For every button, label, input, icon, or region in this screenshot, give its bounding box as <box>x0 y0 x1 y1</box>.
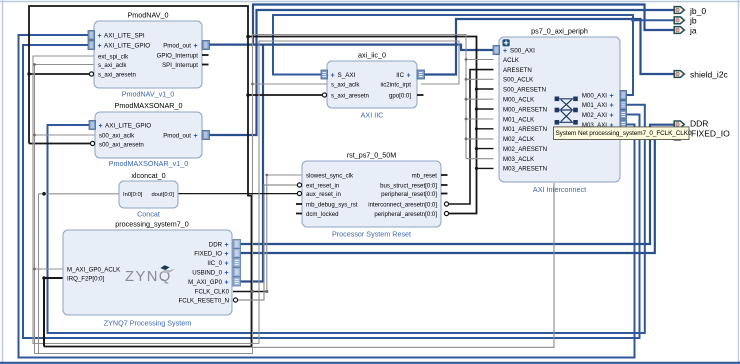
svg-text:FCLK_CLK0: FCLK_CLK0 <box>195 288 230 295</box>
svg-text:shield_i2c: shield_i2c <box>690 69 729 79</box>
port shield_i2c <box>674 69 728 79</box>
port jb <box>674 16 697 26</box>
svg-text:AXI IIC: AXI IIC <box>361 111 384 120</box>
svg-text:processing_system7_0: processing_system7_0 <box>115 220 189 229</box>
terminal axi_iic s_axi_aresetn <box>322 93 326 97</box>
svg-text:USBIND_0: USBIND_0 <box>192 269 222 276</box>
svg-text:dout[0:0]: dout[0:0] <box>151 192 174 198</box>
svg-text:M02_ACLK: M02_ACLK <box>503 136 534 143</box>
terminal s_axi_aresetn PmodNAV <box>89 72 93 76</box>
svg-text:iic2intc_irpt: iic2intc_irpt <box>381 81 412 88</box>
svg-text:+: + <box>331 72 335 79</box>
block rst_ps7_0_50M <box>296 151 448 239</box>
svg-text:ps7_0_axi_periph: ps7_0_axi_periph <box>531 27 588 36</box>
wire clock return under interconnect <box>250 183 554 347</box>
svg-text:ext_reset_in: ext_reset_in <box>306 182 339 189</box>
crossbar icon <box>555 97 578 125</box>
svg-text:ja: ja <box>689 25 697 35</box>
svg-text:FIXED_IO: FIXED_IO <box>194 250 222 257</box>
svg-text:Pmod_out: Pmod_out <box>163 132 191 139</box>
tooltip System Net <box>554 127 692 140</box>
stub mb_reset <box>441 174 448 176</box>
svg-text:ARESETN: ARESETN <box>503 67 532 74</box>
svg-text:M01_ACLK: M01_ACLK <box>503 116 534 123</box>
svg-text:M02_AXI: M02_AXI <box>582 112 607 119</box>
svg-text:FIXED_IO: FIXED_IO <box>691 129 730 139</box>
svg-text:dcm_locked: dcm_locked <box>306 211 339 218</box>
stub gpo <box>417 94 424 96</box>
wire clock branch axi_iic aclk <box>253 83 328 85</box>
wire peripheral_aresetn net <box>29 6 477 214</box>
wire aresetn vertical to bottom <box>44 37 252 347</box>
svg-text:PmodNAV_0: PmodNAV_0 <box>127 11 168 20</box>
svg-text:Concat: Concat <box>137 210 160 219</box>
wire clock branch slowest_sync_clk <box>267 175 302 292</box>
stub mb_debug_sys_rst <box>296 203 302 205</box>
wire clock branch s_axi_aclk <box>35 64 95 66</box>
svg-text:ACLK: ACLK <box>503 57 519 64</box>
svg-text:M00_ACLK: M00_ACLK <box>503 97 534 104</box>
svg-text:+: + <box>194 133 198 140</box>
svg-text:jb_0: jb_0 <box>689 6 706 16</box>
connector Pmod_out PmodNAV <box>202 41 210 50</box>
svg-text:+: + <box>98 43 102 50</box>
terminal peripheral_aresetn <box>444 211 448 215</box>
svg-text:+: + <box>194 43 198 50</box>
node M00 riser joint <box>631 19 635 23</box>
wire bridge on y44.6 <box>253 43 263 45</box>
block processing_system7_0 <box>63 220 232 328</box>
svg-text:+: + <box>610 103 614 110</box>
svg-text:IIC_0: IIC_0 <box>207 260 222 267</box>
svg-text:s_axi_aclk: s_axi_aclk <box>331 81 360 88</box>
block ps7_0_axi_periph <box>499 27 620 195</box>
stub SPI_Interrupt <box>202 64 209 66</box>
connector AXI_LITE_GPIO MAXSONAR <box>89 121 96 130</box>
port FIXED_IO <box>674 129 730 140</box>
stub bus_struct_reset <box>441 184 448 186</box>
svg-text:M01_AXI: M01_AXI <box>582 102 607 109</box>
wire ext_spi_clk loop <box>33 56 259 344</box>
wire PmodMAXSONAR Pmod_out to jb_0 <box>209 10 674 135</box>
svg-text:+: + <box>225 242 229 249</box>
svg-text:+: + <box>225 251 229 258</box>
svg-text:+: + <box>610 112 614 119</box>
svg-text:bus_struct_reset[0:0]: bus_struct_reset[0:0] <box>380 182 437 189</box>
wire PmodNAV Pmod_out to ja <box>209 5 674 45</box>
svg-text:SPI_Interrupt: SPI_Interrupt <box>162 62 198 69</box>
connector M03_AXI <box>620 120 627 129</box>
svg-text:S00_AXI: S00_AXI <box>510 47 535 54</box>
wire FCLK_RESET0_N to ext_reset_in <box>236 185 300 300</box>
terminal interconnect_aresetn <box>444 202 448 206</box>
wire clock branch s00_axi_aclk <box>35 134 96 136</box>
terminal FCLK_RESET0_N <box>233 298 237 302</box>
svg-text:s_axi_aresetn: s_axi_aresetn <box>98 71 136 78</box>
svg-text:GPIO_Interrupt: GPIO_Interrupt <box>157 52 199 59</box>
svg-text:S00_ARESETN: S00_ARESETN <box>503 86 546 93</box>
wire IRQ_F2P In0 net <box>44 278 63 347</box>
svg-text:PmodMAXSONAR_v1_0: PmodMAXSONAR_v1_0 <box>109 159 189 168</box>
svg-text:M03_ARESETN: M03_ARESETN <box>503 166 547 173</box>
svg-text:peripheral_aresetn[0:0]: peripheral_aresetn[0:0] <box>374 211 437 218</box>
wire M01_AXI to PmodMAXSONAR AXI_LITE_GPIO <box>48 105 645 333</box>
svg-text:slowest_sync_clk: slowest_sync_clk <box>306 172 354 179</box>
wire aresetn branch to s_axi_aresetn <box>29 73 92 75</box>
svg-text:ext_spi_clk: ext_spi_clk <box>98 53 129 60</box>
svg-text:M03_ACLK: M03_ACLK <box>503 156 534 163</box>
connector Pmod_out MAXSONAR <box>202 131 210 140</box>
wire ZYNQ FIXED_IO to FIXED_IO port <box>240 137 674 254</box>
svg-text:mb_debug_sys_rst: mb_debug_sys_rst <box>306 201 358 208</box>
svg-text:DDR: DDR <box>690 118 708 128</box>
svg-text:s00_axi_aclk: s00_axi_aclk <box>99 132 135 139</box>
wire M00_AXI riser <box>627 20 634 95</box>
svg-text:M01_ARESETN: M01_ARESETN <box>503 126 547 133</box>
svg-text:PmodMAXSONAR_0: PmodMAXSONAR_0 <box>115 101 183 110</box>
stub dcm_locked <box>296 213 302 215</box>
svg-text:xlconcat_0: xlconcat_0 <box>131 171 165 180</box>
wire aresetn branch to s00_axi_aresetn <box>29 143 93 145</box>
svg-text:Pmod_out: Pmod_out <box>163 42 191 49</box>
svg-text:S_AXI: S_AXI <box>338 72 356 79</box>
svg-text:+: + <box>98 33 102 40</box>
svg-text:AXI_LITE_GPIO: AXI_LITE_GPIO <box>105 122 151 129</box>
svg-text:s00_axi_aresetn: s00_axi_aresetn <box>99 141 144 148</box>
svg-text:axi_iic_0: axi_iic_0 <box>358 51 386 60</box>
svg-text:FCLK_RESET0_N: FCLK_RESET0_N <box>179 297 229 304</box>
wire clock stubs to interconnect <box>466 59 494 61</box>
wire M02_AXI to PmodNAV AXI_LITE_GPIO <box>23 45 640 338</box>
svg-text:AXI Interconnect: AXI Interconnect <box>533 185 586 194</box>
connector AXI_LITE_SPI <box>88 31 95 40</box>
svg-text:+: + <box>225 279 229 286</box>
svg-text:rst_ps7_0_50M: rst_ps7_0_50M <box>347 151 397 160</box>
svg-text:aux_reset_in: aux_reset_in <box>306 191 341 198</box>
svg-text:+: + <box>99 123 103 130</box>
svg-text:+: + <box>225 270 229 277</box>
svg-text:peripheral_reset[0:0]: peripheral_reset[0:0] <box>381 191 437 198</box>
svg-text:M00_AXI: M00_AXI <box>582 92 607 99</box>
svg-text:S00_ACLK: S00_ACLK <box>503 77 533 84</box>
connector IIC <box>417 70 425 79</box>
svg-text:+: + <box>225 260 229 267</box>
wire FCLK_CLK0 clock net <box>233 291 267 293</box>
block PmodNAV_0 <box>94 11 209 99</box>
wire iic2intc_irpt route <box>259 41 459 344</box>
port DDR <box>674 118 708 128</box>
svg-text:M02_ARESETN: M02_ARESETN <box>503 146 547 153</box>
wire ZYNQ DDR to DDR port <box>240 125 674 244</box>
svg-text:AXI_LITE_SPI: AXI_LITE_SPI <box>104 32 145 39</box>
port ja <box>674 25 697 35</box>
svg-text:M_AXI_GP0_ACLK: M_AXI_GP0_ACLK <box>67 266 120 273</box>
block xlconcat_0 <box>119 171 178 219</box>
wire In0 feed <box>39 193 120 195</box>
svg-text:s_axi_aresetn: s_axi_aresetn <box>331 92 369 99</box>
stub GPIO_Interrupt <box>202 54 209 56</box>
svg-text:M_AXI_GP0: M_AXI_GP0 <box>188 279 222 286</box>
wire interconnect_aresetn to ARESETN <box>449 70 494 204</box>
connector M02_AXI <box>620 110 627 119</box>
svg-text:jb: jb <box>689 16 697 26</box>
port jb_0 <box>674 6 706 16</box>
connector M00_AXI <box>620 91 627 100</box>
wire aresetn branch to axi_iic s_axi_aresetn <box>248 94 325 96</box>
connector ZYNQ IIC_0 <box>233 258 241 267</box>
svg-text:gpo[0:0]: gpo[0:0] <box>389 92 411 99</box>
wire S_AXI top route to jb <box>273 15 674 75</box>
svg-text:interconnect_aresetn[0:0]: interconnect_aresetn[0:0] <box>368 201 437 208</box>
svg-text:ZYNQ7 Processing System: ZYNQ7 Processing System <box>104 319 191 328</box>
connector S00_AXI <box>493 46 500 55</box>
connector ZYNQ USBIND_0 <box>233 268 241 277</box>
svg-text:mb_reset: mb_reset <box>412 172 438 179</box>
svg-text:DDR: DDR <box>209 241 223 248</box>
svg-text:M00_ARESETN: M00_ARESETN <box>503 106 547 113</box>
svg-text:+: + <box>503 48 507 55</box>
wire dout to aux_reset_in <box>177 193 300 195</box>
svg-text:+: + <box>407 72 411 79</box>
svg-text:PmodNAV_v1_0: PmodNAV_v1_0 <box>122 90 175 99</box>
connector AXI_LITE_GPIO <box>88 41 95 50</box>
wire M03_AXI to PmodNAV AXI_LITE_SPI <box>19 35 635 358</box>
block axi_iic_0 <box>327 51 424 120</box>
stub peripheral_reset <box>441 193 448 195</box>
block PmodMAXSONAR_0 <box>95 101 202 168</box>
connector ZYNQ DDR <box>233 240 241 249</box>
wire In0 riser <box>38 194 40 354</box>
wire M_AXI_GP0 to S00_AXI <box>240 45 493 282</box>
svg-text:System Net processing_system7_: System Net processing_system7_0_FCLK_CLK… <box>556 130 692 137</box>
terminal ext_reset_in <box>297 183 301 187</box>
connector ZYNQ FIXED_IO <box>233 249 241 258</box>
svg-text:In0[0:0]: In0[0:0] <box>123 192 143 198</box>
connector M01_AXI <box>620 100 627 109</box>
svg-text:IIC: IIC <box>396 72 404 79</box>
terminal aux_reset_in <box>297 191 301 195</box>
wire clock branch M_AXI_GP0_ACLK <box>35 268 64 270</box>
svg-text:Processor System Reset: Processor System Reset <box>332 230 411 239</box>
wire axi_iic IIC to shield_i2c <box>424 19 674 75</box>
expand icon <box>503 39 510 46</box>
svg-text:s_axi_aclk: s_axi_aclk <box>98 62 127 69</box>
svg-text:IRQ_F2P[0:0]: IRQ_F2P[0:0] <box>67 275 105 282</box>
svg-text:+: + <box>610 93 614 100</box>
terminal s00_axi_aresetn <box>90 141 94 145</box>
connector S_AXI <box>321 70 328 79</box>
wire aresetn stubs to interconnect <box>477 88 494 90</box>
svg-text:AXI_LITE_GPIO: AXI_LITE_GPIO <box>104 42 150 49</box>
connector ZYNQ M_AXI_GP0 <box>233 277 241 286</box>
